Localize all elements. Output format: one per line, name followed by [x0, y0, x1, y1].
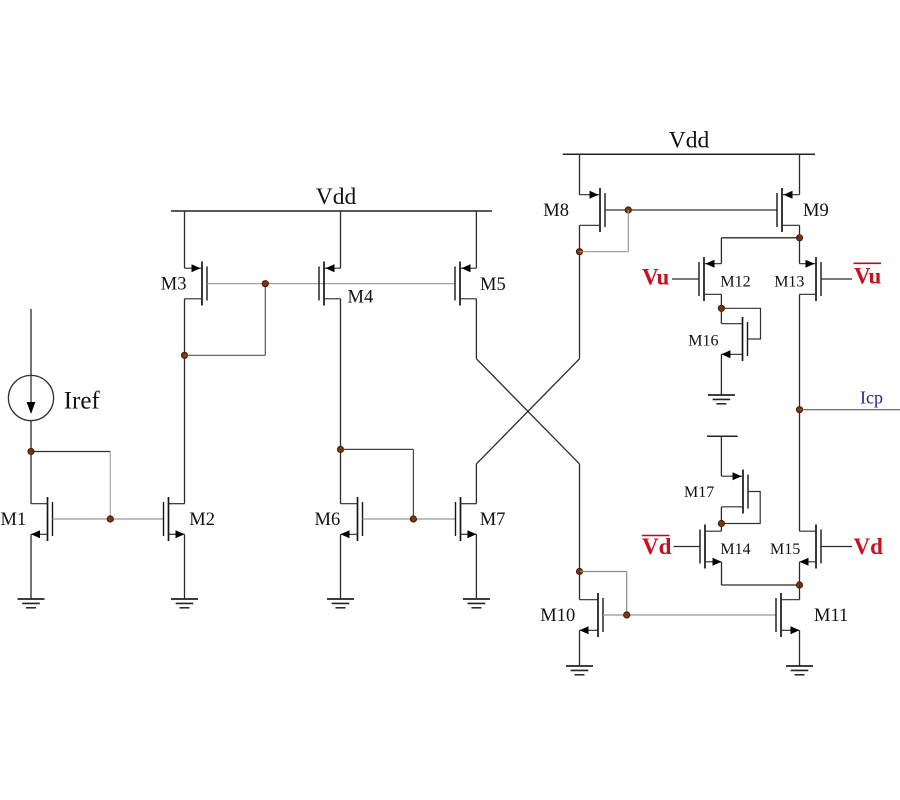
wire Iref to M1 drain — [30, 421, 32, 504]
svg-text:Vdd: Vdd — [316, 184, 357, 210]
svg-text:M15: M15 — [770, 541, 800, 558]
transistor M5 — [455, 262, 476, 306]
svg-text:Vu: Vu — [642, 265, 669, 290]
wire source bus M14-M15 — [722, 584, 800, 586]
wire M3-M4-M5 gate bus — [265, 283, 455, 285]
svg-text:M6: M6 — [315, 510, 341, 530]
transistor M7 — [456, 497, 477, 541]
wire Vdd to M4 source — [340, 211, 342, 268]
label M11 — [814, 606, 848, 626]
wire M17 gate loop — [721, 492, 760, 524]
supply bar M17 — [707, 435, 738, 437]
wire Iref input top — [30, 309, 32, 375]
wire cross diagonal M8 to left — [476, 359, 579, 464]
junction dot node M10/M11 gate — [624, 612, 630, 618]
wire M12 drain down — [720, 294, 722, 323]
wire M7 source to ground — [475, 534, 477, 599]
junction dot node M12 drain — [718, 305, 724, 311]
svg-text:Icp: Icp — [860, 388, 883, 408]
transistor M10 — [580, 593, 604, 637]
wire M3 gate lead — [207, 283, 265, 285]
wire down to M11 drain — [799, 585, 801, 600]
Vdd rail right — [563, 153, 815, 155]
label Icp — [860, 388, 883, 408]
label M4 — [348, 288, 374, 308]
transistor M4 — [319, 262, 341, 306]
wire M10 diode horizontal — [580, 571, 627, 573]
svg-text:M4: M4 — [348, 288, 374, 308]
svg-text:Vu: Vu — [854, 264, 881, 289]
svg-text:Vd: Vd — [854, 534, 884, 559]
wire M16 source to ground — [720, 354, 722, 395]
transistor M15 — [800, 525, 822, 569]
junction dot node Iref/M1 drain — [28, 448, 34, 454]
label Vdd rail1 — [316, 184, 357, 210]
junction dot node M3 gate — [262, 281, 268, 287]
ground M1 — [18, 599, 45, 608]
junction dot node M1/M2 gate — [107, 516, 113, 522]
wire M14 source down — [721, 562, 723, 585]
wire Vd-bar to M14 gate — [674, 546, 701, 548]
ground M7 — [463, 599, 490, 608]
ground M2 — [171, 599, 198, 608]
svg-text:Iref: Iref — [64, 388, 101, 415]
transistor M9 — [777, 188, 800, 232]
transistor M8 — [580, 188, 606, 232]
junction dot node M17/M14 drain — [718, 520, 724, 526]
wire M8 diode vertical — [627, 210, 629, 252]
label Vu-bar input — [854, 263, 882, 288]
wire Vdd to M8 source — [579, 154, 581, 194]
wire M17 drain down — [720, 507, 722, 531]
wire M4 drain to M6 drain — [340, 299, 342, 504]
wire M2 source to ground — [184, 534, 186, 599]
transistor M12 — [699, 257, 721, 301]
label Vdd rail2 — [669, 128, 710, 154]
ground M6 — [327, 599, 354, 608]
wire M6-M7 gate — [363, 518, 456, 520]
transistor M13 — [800, 257, 822, 301]
label M14 — [720, 541, 750, 558]
svg-text:M1: M1 — [1, 510, 27, 530]
label M15 — [770, 541, 800, 558]
svg-text:M17: M17 — [684, 484, 714, 501]
label M8 — [543, 201, 569, 221]
svg-text:Vdd: Vdd — [669, 128, 710, 154]
wire right column to M10 node — [579, 464, 581, 572]
wire M13 gate to Vu-bar — [821, 278, 852, 280]
svg-text:M3: M3 — [161, 275, 187, 295]
svg-text:Vd: Vd — [642, 534, 672, 559]
label M6 — [315, 510, 341, 530]
Vdd rail left — [171, 210, 492, 212]
label Vd input — [854, 534, 884, 559]
svg-text:M10: M10 — [540, 606, 575, 626]
label M17 — [684, 484, 714, 501]
wire node to M12 source — [721, 238, 799, 264]
svg-text:M16: M16 — [688, 333, 718, 350]
wire Vdd to M3 source — [184, 211, 186, 268]
junction dot node M9 drain — [796, 235, 802, 241]
wire M6 diode vertical — [412, 449, 414, 519]
wire M3 diode vertical — [264, 284, 266, 356]
wire M13 drain to M15 drain — [799, 294, 801, 531]
transistor M11 — [776, 593, 800, 637]
label M7 — [480, 510, 506, 530]
wire M6 diode horizontal — [341, 448, 414, 450]
wire M1 source to ground — [30, 534, 32, 599]
wire cross diagonal M5 to right — [476, 359, 579, 464]
svg-text:M14: M14 — [720, 541, 750, 558]
label M12 — [720, 274, 750, 291]
transistor M1 — [31, 497, 53, 541]
label M13 — [774, 274, 804, 291]
junction dot node M4/M6 drain — [337, 446, 343, 452]
label M1 — [1, 510, 27, 530]
wire M10 diode vertical — [626, 572, 628, 616]
label M5 — [480, 275, 506, 295]
wire M6 source to ground — [340, 534, 342, 599]
ground M16 — [708, 395, 735, 404]
wire M11 source to ground — [799, 630, 801, 666]
wire M8-M9 gate — [605, 209, 777, 211]
wire Icp output — [800, 409, 900, 411]
label Iref — [64, 388, 101, 415]
ground M11 — [786, 666, 813, 675]
wire M9 drain down — [799, 225, 801, 263]
transistor M16 — [721, 317, 747, 361]
label Vu input — [642, 265, 669, 290]
wire M15 source down — [799, 562, 801, 585]
label M2 — [189, 510, 215, 530]
ground M10 — [566, 666, 593, 675]
svg-text:M11: M11 — [814, 606, 848, 626]
wire M8 drain down — [579, 225, 581, 358]
wire M10-M11 gate — [603, 614, 776, 616]
wire M16 gate loop — [721, 308, 760, 339]
current source Iref circle — [8, 375, 53, 420]
svg-text:M12: M12 — [720, 274, 750, 291]
wire Vu to M12 gate — [672, 278, 699, 280]
junction dot node M10 drain — [576, 568, 582, 574]
junction dot node M15 source/M11 drain — [796, 582, 802, 588]
svg-text:M7: M7 — [480, 510, 506, 530]
junction dot node Icp — [796, 407, 802, 413]
wire M15 gate to Vd — [821, 546, 852, 548]
junction dot node M8 drain — [576, 249, 582, 255]
wire M8 diode horizontal — [580, 251, 629, 253]
wire M10 drain stub — [579, 572, 581, 600]
transistor M14 — [700, 525, 722, 569]
wire M3 diode horizontal — [185, 354, 266, 356]
wire left column to M7 drain — [475, 464, 477, 504]
transistor M3 — [185, 262, 208, 306]
wire M1-M2 gate — [53, 518, 164, 520]
svg-text:M8: M8 — [543, 201, 569, 221]
transistor M2 — [164, 497, 185, 541]
wire Vdd to M9 source — [799, 154, 801, 194]
wire M3 drain to M2 drain — [184, 299, 186, 504]
svg-text:M13: M13 — [774, 274, 804, 291]
junction dot node M8 gate — [625, 207, 631, 213]
transistor M6 — [341, 497, 363, 541]
wire node to gate column — [31, 451, 110, 453]
label Vd-bar input — [642, 534, 672, 559]
svg-text:M9: M9 — [803, 201, 829, 221]
wire M10 source to ground — [579, 630, 581, 666]
transistor M17 — [721, 470, 748, 514]
wire gate column down — [109, 452, 111, 520]
wire M5 drain down — [475, 299, 477, 359]
label M10 — [540, 606, 575, 626]
junction dot node M3 drain — [181, 352, 187, 358]
wire Vdd to M5 source — [475, 211, 477, 268]
label M3 — [161, 275, 187, 295]
wire supply to M17 source — [720, 436, 722, 476]
label M16 — [688, 333, 718, 350]
label M9 — [803, 201, 829, 221]
svg-text:M5: M5 — [480, 275, 506, 295]
junction dot node M6/M7 gate — [410, 516, 416, 522]
svg-text:M2: M2 — [189, 510, 215, 530]
